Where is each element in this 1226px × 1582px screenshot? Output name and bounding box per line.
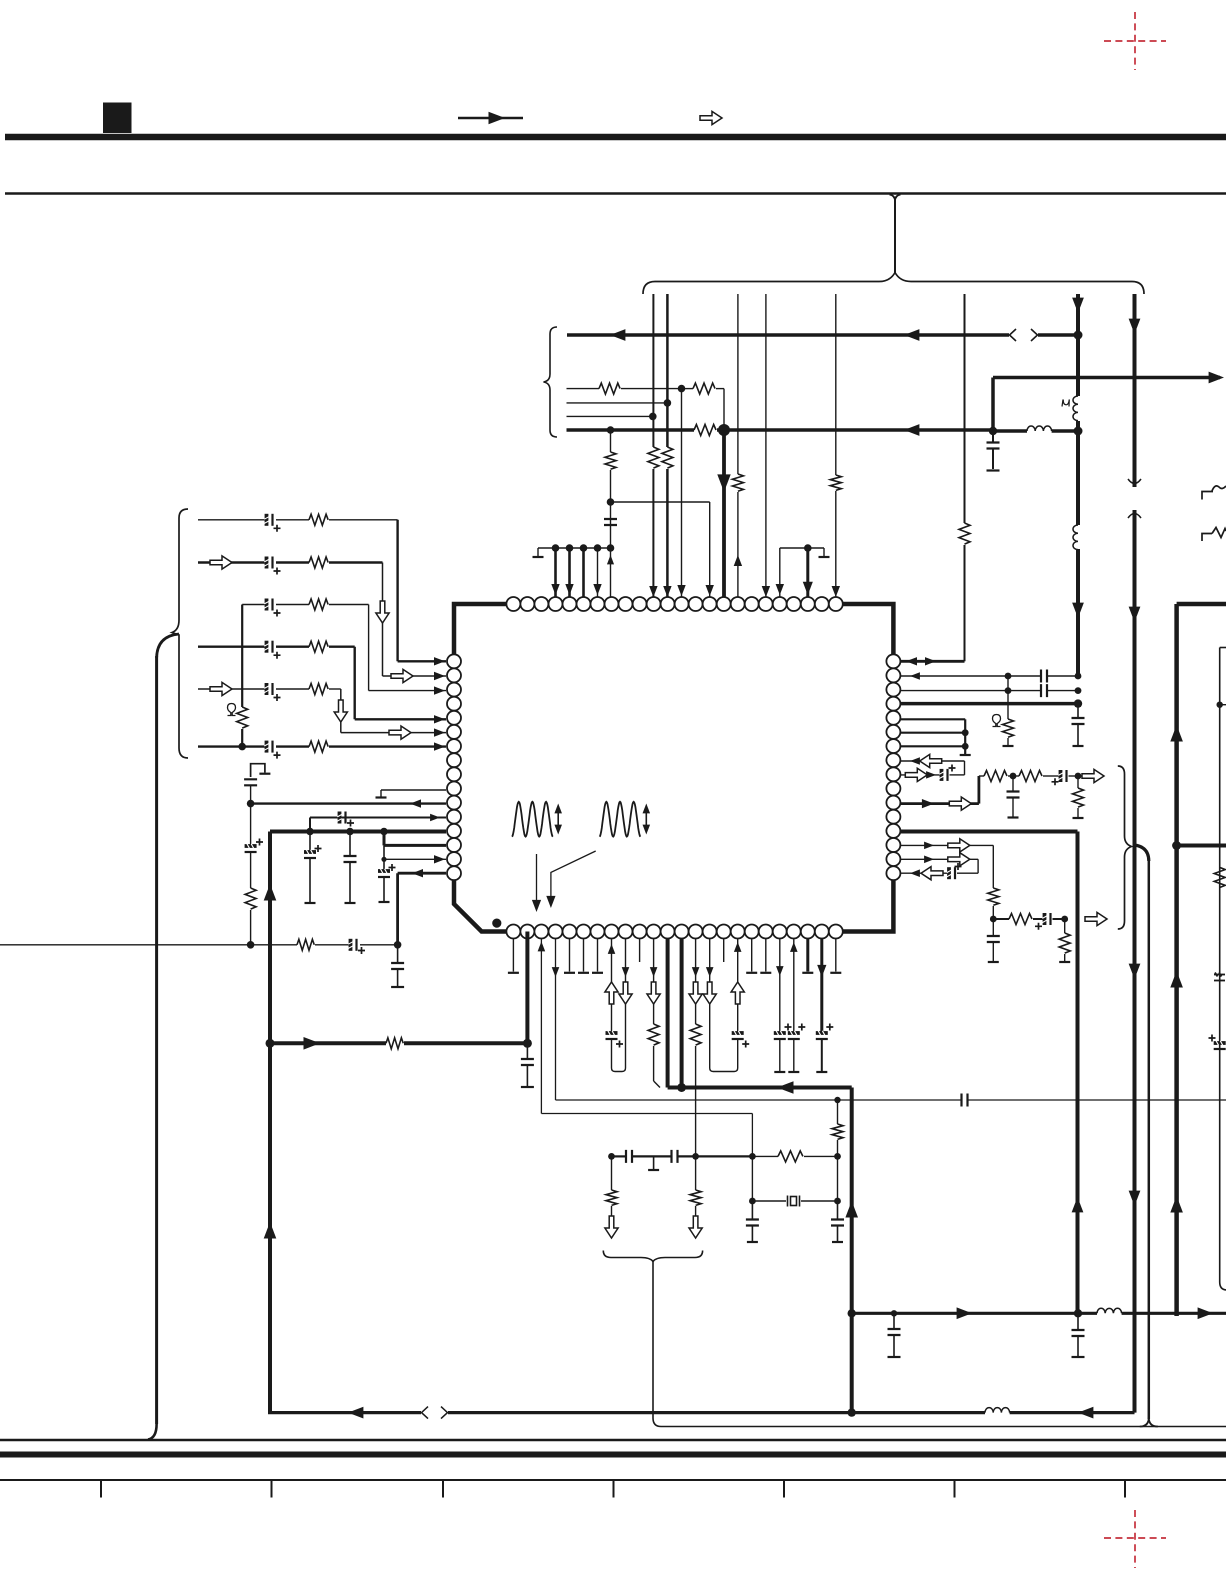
bus B3 to right edge: [993, 376, 1220, 380]
wire feeder V3 lower: [737, 492, 739, 597]
right brace (output group): [1118, 766, 1132, 929]
capacitor C27 chain: [891, 1310, 897, 1316]
capacitor C12 (pol) chain: [309, 832, 311, 853]
wire x=837.5 tie b: [837, 1140, 839, 1201]
left trunk (vertical): [155, 656, 158, 1424]
row wire RW1c: [682, 388, 694, 390]
input row 2 wire b: [276, 561, 309, 563]
wire feeder V7 mid: [1076, 421, 1080, 525]
junction osc b: [692, 1153, 699, 1160]
wire rail to pin T7: [597, 548, 599, 597]
edge capacitor C39 (pol, cut): [1214, 973, 1225, 981]
waveform W1 range arrow: [557, 807, 559, 831]
overbrace (top bus group): [643, 273, 1144, 295]
wire V16 (thick) to pin T16: [722, 430, 726, 597]
wire B11 tail: [653, 1046, 655, 1081]
junction R3 b: [1075, 687, 1082, 694]
resistor R1: [648, 447, 659, 468]
bus B4 c: [360, 944, 398, 946]
resistor R9: [605, 452, 616, 469]
input row 5 wire b: [276, 688, 309, 690]
inductor L2: [1073, 525, 1078, 550]
capacitor C32 (pol): [939, 769, 947, 781]
wire pin B4 run: [555, 939, 557, 1101]
bus B7 left: [268, 1411, 421, 1414]
wire R30 tail: [992, 906, 994, 919]
junction rail RL2: [804, 544, 812, 552]
wire rail to pin T5: [568, 548, 571, 597]
bus B1 right segment: [1038, 333, 1078, 337]
junction R4: [1074, 699, 1082, 707]
wire pin B15: [709, 939, 711, 1042]
row wire RW1: [567, 388, 600, 390]
bus B7 right: [448, 1411, 985, 1414]
wire rail to pin T6: [582, 548, 585, 597]
wire pin B21: [793, 939, 795, 1034]
resistor R20: [648, 1024, 659, 1045]
trunk T2 (thick vertical): [268, 832, 272, 1413]
wire pin R8: [900, 760, 964, 762]
bus B1 break right: [1031, 329, 1038, 341]
capacitor C23: [626, 1150, 632, 1163]
wire pin B9 arrow: [622, 967, 630, 977]
wire pin R15: [900, 858, 978, 860]
capacitor C16 chain: [397, 945, 399, 963]
bus B4 b: [315, 944, 350, 946]
resistor R2: [662, 447, 673, 468]
edge component stub 2: [1202, 528, 1226, 542]
edge component stub 1: [1202, 486, 1226, 500]
wire to pin L11: [251, 802, 446, 804]
junction osc d: [834, 1153, 841, 1160]
input row 5 wire: [198, 688, 266, 690]
wire pin R16: [900, 872, 947, 874]
mid brace (row group): [544, 327, 558, 437]
junction filter b: [1075, 773, 1082, 780]
wire feeder V2 lower: [666, 469, 669, 597]
wire pin R7: [900, 745, 965, 747]
rail R-B foot hook: [1220, 1282, 1226, 1290]
bus B4 (thin, left edge): [0, 944, 297, 946]
resistor R25: [832, 1124, 843, 1139]
frame tick 7: [1124, 1480, 1126, 1498]
trunk T4 foot: [1140, 1418, 1149, 1427]
junction V10/rail: [607, 544, 615, 552]
resistor R13: [309, 641, 328, 652]
capacitor C1 lower: [992, 449, 994, 470]
wire rail to pin T22: [806, 548, 809, 597]
row wire RW1b: [621, 388, 682, 390]
capacitor C38 (pol) on R-B: [1214, 1041, 1226, 1049]
wire R2-R3 tie: [1007, 676, 1009, 691]
capacitor C37 chain: [992, 919, 994, 936]
bus B7 right b: [1010, 1411, 1135, 1414]
wire x=611.5 osc leg: [611, 1156, 613, 1190]
bus B8 (y=1313.3): [852, 1312, 1097, 1315]
resistor R30: [988, 888, 999, 905]
bus B7 break right: [441, 1407, 448, 1419]
net stem from top rule: [890, 195, 896, 202]
wire B15 loop: [710, 1039, 738, 1072]
wire C10 up: [250, 804, 252, 846]
osc stem: [652, 1262, 654, 1419]
wire B8 loop: [612, 939, 626, 1072]
capacitor C29: [1041, 670, 1047, 683]
wire pin B11: [653, 939, 655, 1025]
junction L13 c: [380, 828, 388, 836]
trunk T3 (x=851.7): [850, 1088, 854, 1413]
wire feeder V4: [765, 294, 767, 597]
wire pin B2 down: [525, 932, 529, 1044]
IC U1 left pins: [447, 654, 461, 880]
resistor R23: [606, 1190, 617, 1205]
junction B8/T3: [848, 1309, 856, 1317]
bus B1 left segment: [567, 333, 1009, 337]
junction R2 b: [1075, 673, 1082, 680]
junction osc c: [749, 1153, 756, 1160]
junction L13 b: [346, 828, 354, 836]
resistor R16: [237, 707, 248, 728]
wire spur to T15: [611, 501, 710, 503]
pin B7 stub: [597, 939, 599, 972]
resistor R10: [309, 514, 328, 525]
agc row b: [1033, 918, 1043, 920]
junction B13: [677, 1083, 686, 1092]
left brace (input group): [172, 509, 188, 758]
waveform W2 range arrow: [645, 807, 647, 831]
bus L13 (thick): [270, 830, 446, 834]
rail R-A spur: [1177, 844, 1226, 848]
IC U1 body: [454, 604, 893, 932]
junction B7/T3: [848, 1408, 856, 1416]
input row 3 wire: [242, 604, 266, 606]
wire feeder V6: [964, 294, 966, 523]
capacitor C26 chain: [837, 1201, 839, 1220]
wire break V8 upper: [1128, 479, 1141, 484]
wire V10 mid: [610, 470, 612, 548]
junction agc a: [990, 916, 997, 923]
capacitor C19 (pol): [732, 1031, 744, 1039]
junction xtal a: [749, 1198, 756, 1205]
rail R-B top edge: [1220, 647, 1226, 649]
osc center stub: [653, 1156, 655, 1169]
wire pin R5: [900, 718, 965, 720]
waveform symbol W1: [512, 802, 553, 837]
legend block arrow: [700, 111, 722, 124]
junction R6: [962, 729, 969, 736]
bus B7 break left: [422, 1407, 429, 1419]
bus B1 break left: [1010, 329, 1017, 341]
resistor R4: [830, 475, 841, 490]
wire pin R11: [900, 802, 979, 805]
wire feeder V2: [666, 294, 669, 447]
filter row c: [1043, 775, 1059, 777]
IC pin-1 marker: [492, 919, 501, 928]
page frame top rule (thin): [5, 192, 1226, 195]
wire rail to pin T4: [554, 548, 557, 597]
left trunk bottom hook: [148, 1424, 157, 1440]
capacitor C30: [1041, 684, 1047, 697]
capacitor C3 (pol): [264, 514, 272, 526]
frame tick 6: [954, 1480, 956, 1498]
IC U1 right pins: [886, 654, 900, 880]
rail RL1 stub: [537, 548, 539, 556]
resistor R11: [309, 557, 328, 568]
IC U1 bottom pins: [506, 925, 842, 939]
registration mark (bottom, red dashed cross): [1104, 1510, 1166, 1568]
wire feeder V7 (thick): [1076, 294, 1080, 396]
capacitor C4 (pol): [264, 557, 272, 569]
wire B21 tail: [793, 1039, 795, 1071]
crystal X1: [788, 1196, 800, 1207]
waveform symbol W2: [600, 802, 641, 837]
wire feeder V1: [652, 294, 654, 447]
wire to pin L16: [398, 872, 446, 875]
rail R-B (x=1219.7): [1219, 648, 1221, 1283]
capacitor C7 (pol): [264, 683, 272, 695]
wire to pin L14: [383, 832, 386, 846]
resistor R27: [984, 771, 1007, 782]
frame tick 4: [613, 1480, 615, 1498]
agc row c: [1053, 918, 1065, 920]
capacitor C24: [672, 1150, 678, 1163]
junction xtal b: [834, 1198, 841, 1205]
resistor R15: [309, 741, 328, 752]
wire feeder V3: [737, 294, 739, 474]
input row 1 wire b: [276, 519, 309, 521]
input row 2 wire c: [329, 561, 383, 563]
page frame bottom rule 3 (thin): [0, 1479, 1226, 1481]
wire feeder V5: [835, 294, 837, 475]
wire feeder V6 lower: [964, 545, 966, 661]
capacitor C28 chain: [1077, 1313, 1079, 1330]
resistor R12: [309, 599, 328, 610]
rail R-A (x=1176.6): [1174, 604, 1179, 1316]
wire pin R14: [900, 844, 993, 846]
wire pin B20: [779, 939, 781, 1034]
feedback wire y=1043: [270, 1041, 386, 1045]
junction B4 end: [394, 941, 402, 949]
bus B5 (y=1087.5): [668, 1086, 852, 1090]
wire B20 tail: [779, 1039, 781, 1071]
inductor L5: [1097, 1308, 1122, 1313]
frame tick 2: [271, 1480, 273, 1498]
wire pin R9: [900, 774, 940, 776]
bus B2 mid: [717, 428, 993, 432]
wire pin B13 (thick): [680, 939, 684, 1088]
junction rail/pin wire x=555.5: [552, 544, 560, 552]
resistor R3: [732, 474, 743, 491]
resistor R28: [1019, 771, 1042, 782]
resistor R17: [245, 888, 256, 909]
pin B5 stub: [569, 939, 571, 972]
ohm label 2: [993, 715, 1001, 727]
bus R13 (thick): [900, 830, 1077, 834]
wire C9 down: [250, 785, 252, 803]
wire B23 tail: [821, 1039, 823, 1071]
feedback wire b: [404, 1041, 527, 1045]
resistor R26: [1003, 719, 1014, 737]
logic-stub symbol G1: [251, 764, 265, 777]
input row 5 wire c: [329, 688, 341, 690]
wire feeder V8 (thick): [1133, 294, 1137, 487]
junction R2 a: [1005, 673, 1012, 680]
junction V10 tap: [607, 498, 615, 506]
bus B8 b: [1122, 1312, 1226, 1315]
pin B1 stub: [512, 939, 514, 972]
wire feeder V1 lower: [652, 469, 654, 597]
capacitor C22 (pol): [816, 1031, 828, 1039]
wire pin R3 b: [1047, 690, 1078, 692]
wire L12 stub: [309, 818, 311, 832]
wire pin B14: [695, 939, 697, 1025]
section marker square: [103, 103, 132, 134]
junction x250: [247, 800, 255, 808]
junction row6/vert: [238, 743, 246, 751]
resistor R29 chain: [1077, 776, 1079, 788]
agc out arrow: [1085, 912, 1107, 925]
agc row wire: [993, 918, 1009, 920]
wire pin R9 b: [950, 774, 965, 776]
input row 4 wire: [198, 646, 266, 648]
junction bus B1 / V7: [1074, 331, 1083, 340]
wire break V8 lower: [1128, 514, 1141, 519]
input row 4 wire b: [276, 646, 309, 648]
junction B4run: [834, 1097, 840, 1103]
row wire RW1d: [716, 388, 724, 390]
inductor L1: [1073, 396, 1078, 421]
bus B2 inductor L3: [1027, 426, 1052, 431]
capacitor C15 (pol): [348, 939, 356, 951]
junction bus B2 / V16 (large): [718, 424, 730, 436]
junction feed/B2pin: [523, 1039, 532, 1048]
leader to pin B3: [536, 854, 538, 906]
wire crystal rail: [751, 1156, 753, 1201]
filter row b: [1008, 775, 1019, 777]
wire crystal rail b: [801, 1200, 838, 1202]
capacitor C8 (pol): [264, 741, 272, 753]
resistor R7: [693, 383, 715, 394]
bus B2: [567, 428, 695, 432]
junction bus B2 tap: [607, 426, 615, 434]
resistor R22: [778, 1151, 803, 1162]
trunk T4 (x=1148.8): [1148, 860, 1151, 1419]
capacitor C36 (pol): [1042, 913, 1050, 925]
osc rail b: [632, 1155, 672, 1157]
resistor R14: [309, 684, 328, 695]
rail RL2: [780, 547, 824, 549]
bus B2 right: [993, 429, 1027, 433]
registration mark (top, red dashed cross): [1104, 12, 1166, 70]
wire R7 stub: [964, 746, 966, 754]
filter row d: [1069, 775, 1083, 777]
legend signal-flow arrow: [458, 117, 523, 120]
row tie lower: [241, 729, 243, 747]
junction B4/R17: [247, 941, 255, 949]
capacitor C40 (series): [962, 1094, 968, 1107]
junction T2/feed: [266, 1039, 275, 1048]
pin B10 stub: [639, 939, 641, 963]
osc resistor rail b: [804, 1155, 838, 1157]
capacitor C13 chain: [349, 832, 351, 857]
wire osc leg arrow: [611, 1206, 613, 1216]
resistor R5: [959, 523, 970, 544]
wire osc leg arrow 2: [695, 1206, 697, 1216]
resistor R33: [1214, 867, 1225, 887]
input row 1 wire c: [329, 519, 398, 521]
wire R17 down: [250, 910, 252, 945]
osc resistor rail: [752, 1155, 778, 1157]
row wire RW3: [567, 415, 653, 417]
filter row wire: [979, 775, 984, 777]
input row 2 wire: [198, 561, 266, 563]
junction R3 a: [1005, 687, 1012, 694]
frame tick 3: [442, 1480, 444, 1498]
rail RL2 stub: [823, 548, 825, 556]
inductor L4: [985, 1408, 1010, 1413]
wire V10 to pin T8: [610, 548, 612, 597]
pin B18 stub: [751, 939, 753, 972]
capacitor C20 (pol): [774, 1031, 786, 1039]
junction RW1/V9: [678, 385, 686, 393]
wire pin B17: [737, 939, 739, 1034]
junction rail/pin wire x=569.5: [566, 544, 574, 552]
wire riser at x=993: [991, 378, 995, 432]
capacitor C21 (pol): [788, 1031, 800, 1039]
capacitor C14 (pol) chain: [383, 845, 385, 871]
mu label: [1062, 400, 1069, 407]
rail RL1: [538, 547, 611, 549]
capacitor C11 (pol): [337, 812, 345, 824]
resistor R32 chain: [1064, 919, 1066, 933]
wire pin B3 run: [540, 939, 542, 1114]
pin B6 stub: [583, 939, 585, 972]
capacitor C9: [244, 779, 257, 785]
wire pin B23 (thick): [820, 939, 823, 1034]
input row 6 wire: [198, 745, 266, 747]
pin B24 stub: [835, 939, 837, 972]
resistor R19: [386, 1038, 403, 1049]
capacitor C33 (pol): [1058, 770, 1066, 782]
wire V10 upper: [610, 430, 612, 452]
input row 6 wire b: [276, 745, 309, 747]
rail R-A top edge: [1177, 602, 1226, 607]
row wire RW2: [567, 402, 668, 404]
pin B19 stub: [765, 939, 767, 972]
capacitor C1 stub: [992, 431, 994, 442]
IC U1 top pins: [506, 597, 842, 611]
input row 4 wire c: [329, 646, 355, 648]
page frame top rule (thick): [5, 134, 1226, 141]
capacitor C34 chain: [1012, 776, 1014, 792]
left trunk elbow: [157, 634, 179, 658]
junction osc a: [608, 1153, 615, 1160]
underbrace (osc group): [603, 1251, 702, 1262]
junction R-A: [1172, 841, 1181, 850]
junction RW3/V1: [649, 413, 657, 421]
junction R7: [962, 743, 969, 750]
wire B14 tail: [695, 1046, 697, 1156]
wire pin R4 (thick): [900, 702, 1078, 706]
capacitor C17 chain: [526, 1043, 528, 1059]
wire V9 to pin T13: [681, 389, 683, 597]
resistor R8: [694, 425, 716, 436]
wire pin R16 b: [957, 872, 978, 874]
wire pin B12 (thick): [666, 939, 670, 1088]
capacitor C18 (pol): [606, 1031, 618, 1039]
resistor R21: [690, 1024, 701, 1045]
input row 6 wire c: [329, 745, 446, 747]
